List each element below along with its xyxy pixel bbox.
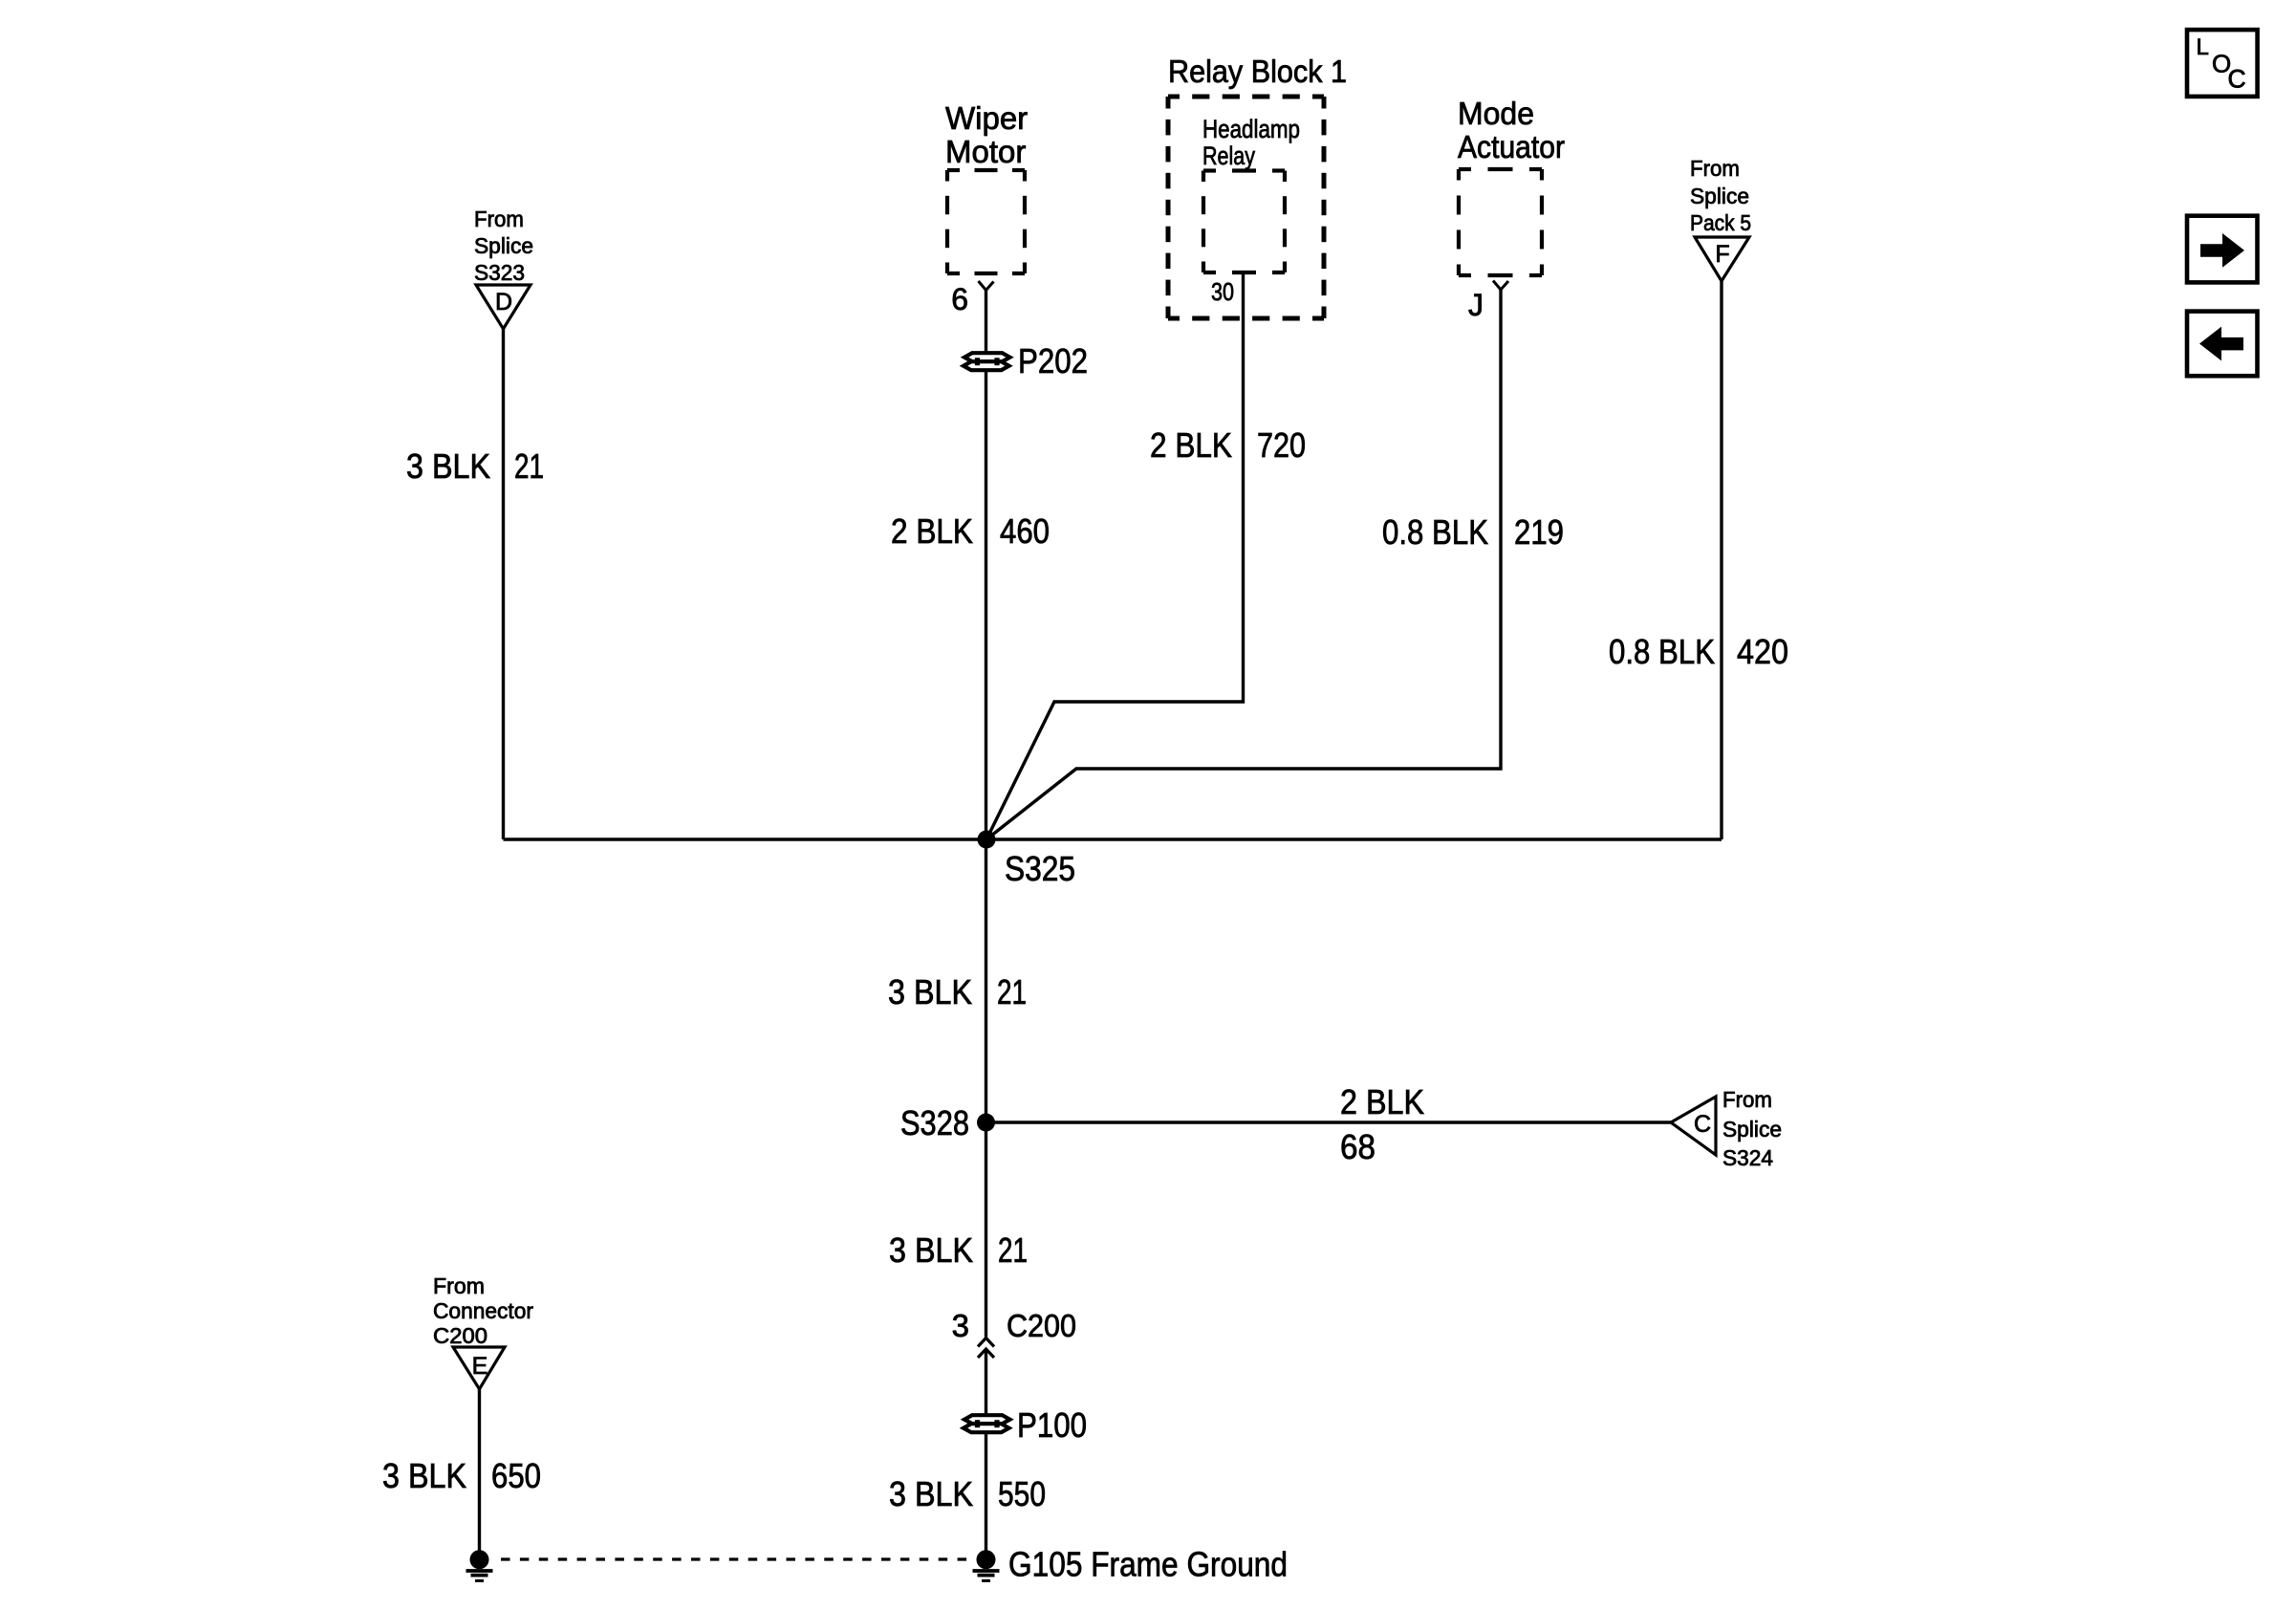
node S328 junction dot <box>977 1114 995 1132</box>
wire label 0.8 BLK 219 <box>1382 512 1564 552</box>
splice triangle E (From Connector C200) <box>433 1273 533 1389</box>
wire label 3 BLK 21 (S325 to S328) <box>888 972 1027 1012</box>
wire label 2 BLK 720 <box>1150 425 1306 465</box>
svg-text:From: From <box>474 207 524 231</box>
component: Mode Actuator <box>1458 96 1565 164</box>
pin 6 Y-terminal of wiper motor <box>951 281 993 316</box>
wire label 0.8 BLK 420 <box>1609 632 1788 671</box>
wire: mode actuator pin J drop to S325 <box>986 290 1501 839</box>
svg-text:F: F <box>1715 241 1729 268</box>
svg-text:From: From <box>1722 1087 1772 1112</box>
svg-text:6: 6 <box>951 282 968 316</box>
svg-text:3: 3 <box>952 1308 969 1343</box>
pin J Y-terminal of mode actuator <box>1468 281 1508 323</box>
svg-text:C200: C200 <box>433 1323 487 1348</box>
svg-text:G105 Frame Ground: G105 Frame Ground <box>1008 1545 1288 1584</box>
svg-text:219: 219 <box>1514 512 1564 552</box>
nav arrow box pointing left <box>2187 312 2258 377</box>
svg-text:Splice: Splice <box>1722 1117 1782 1142</box>
svg-text:3 BLK: 3 BLK <box>382 1456 466 1495</box>
svg-text:From: From <box>1690 156 1740 181</box>
svg-text:Relay: Relay <box>1202 141 1255 170</box>
svg-text:E: E <box>472 1353 488 1380</box>
svg-text:21: 21 <box>514 446 544 486</box>
svg-text:460: 460 <box>1000 511 1050 551</box>
nav arrow box pointing right <box>2187 216 2258 283</box>
svg-text:Splice: Splice <box>474 233 533 258</box>
svg-text:L: L <box>2197 34 2209 60</box>
wire: right vertical from splice pack 5 triangle F down to bus <box>1720 281 1722 839</box>
svg-text:3 BLK: 3 BLK <box>888 972 972 1012</box>
svg-text:2 BLK: 2 BLK <box>1340 1082 1424 1121</box>
component box: Mode Actuator <box>1459 167 1471 171</box>
svg-text:0.8 BLK: 0.8 BLK <box>1382 512 1488 552</box>
wire label 3 BLK 21 (upper left) <box>406 446 544 486</box>
svg-text:3 BLK: 3 BLK <box>889 1230 973 1270</box>
svg-text:From: From <box>433 1273 485 1298</box>
svg-text:S328: S328 <box>900 1103 969 1142</box>
svg-text:S325: S325 <box>1005 849 1075 888</box>
svg-text:S324: S324 <box>1722 1145 1773 1170</box>
connector P202 grommet <box>964 353 1010 361</box>
wire label 2 BLK 460 <box>891 511 1050 551</box>
wire: headlamp relay pin 30 drop to S325 <box>986 272 1244 839</box>
svg-text:C200: C200 <box>1007 1308 1076 1343</box>
svg-text:21: 21 <box>997 972 1027 1012</box>
svg-text:Relay Block 1: Relay Block 1 <box>1168 54 1347 89</box>
svg-text:650: 650 <box>491 1456 541 1495</box>
connector C200 in-line chevrons (pin 3) <box>952 1308 1076 1358</box>
wire: dashed ground tie line between grounds <box>501 1557 976 1560</box>
svg-text:21: 21 <box>998 1230 1028 1270</box>
wire: center vertical from wiper motor pin 6 down to C200 <box>985 290 987 1338</box>
ground symbol at E drop <box>470 1550 489 1569</box>
svg-text:420: 420 <box>1737 632 1788 671</box>
component box: Headlamp Relay inner <box>1203 168 1216 172</box>
component box: Wiper Motor <box>947 168 960 172</box>
svg-text:Headlamp: Headlamp <box>1202 115 1300 143</box>
wire label 2 BLK / 68 on S328 branch <box>1340 1082 1424 1166</box>
svg-text:C: C <box>1694 1111 1711 1138</box>
node S325 junction dot <box>978 831 996 849</box>
svg-text:C: C <box>2228 65 2246 94</box>
connector P100 grommet <box>964 1415 1010 1424</box>
svg-text:Mode: Mode <box>1458 96 1534 131</box>
svg-text:Actuator: Actuator <box>1458 129 1565 164</box>
component box: Relay Block 1 outer <box>1168 95 1180 99</box>
wire: left vertical from splice D down to ground bus <box>502 329 505 839</box>
svg-text:550: 550 <box>998 1474 1046 1513</box>
svg-text:0.8 BLK: 0.8 BLK <box>1609 632 1715 671</box>
wire label 3 BLK 550 <box>889 1474 1046 1513</box>
svg-text:3 BLK: 3 BLK <box>406 446 490 486</box>
svg-text:Wiper: Wiper <box>945 100 1028 136</box>
splice triangle F (From Splice Pack 5) <box>1690 156 1751 281</box>
svg-text:30: 30 <box>1211 277 1234 306</box>
wire: center vertical from C200 down to G105 <box>985 1349 987 1561</box>
svg-text:3 BLK: 3 BLK <box>889 1474 973 1513</box>
svg-text:68: 68 <box>1340 1127 1375 1166</box>
svg-text:2 BLK: 2 BLK <box>1150 425 1232 465</box>
svg-text:J: J <box>1468 288 1484 322</box>
wire: main horizontal ground bus through S325 <box>504 838 1722 840</box>
component: Wiper Motor <box>945 100 1028 169</box>
svg-text:D: D <box>495 289 512 315</box>
splice triangle D (From Splice S323) <box>474 207 533 329</box>
wire: S328 horizontal branch to splice C <box>986 1120 1672 1123</box>
LOC legend box <box>2187 30 2258 97</box>
ground G105 <box>977 1550 996 1569</box>
svg-text:S323: S323 <box>474 260 525 285</box>
svg-text:2 BLK: 2 BLK <box>891 511 973 551</box>
splice triangle C (From Splice S324) <box>1671 1087 1782 1170</box>
svg-text:Motor: Motor <box>945 134 1026 169</box>
svg-text:P100: P100 <box>1017 1405 1087 1445</box>
wire: bottom-left vertical from connector E triangle to ground <box>478 1389 481 1559</box>
svg-text:720: 720 <box>1257 425 1306 465</box>
svg-text:Splice: Splice <box>1690 184 1749 208</box>
svg-text:Pack 5: Pack 5 <box>1690 210 1751 235</box>
wire label 3 BLK 21 (below S328) <box>889 1230 1028 1270</box>
wire label 3 BLK 650 <box>382 1456 541 1495</box>
svg-text:Connector: Connector <box>433 1298 533 1323</box>
svg-text:P202: P202 <box>1018 341 1088 381</box>
